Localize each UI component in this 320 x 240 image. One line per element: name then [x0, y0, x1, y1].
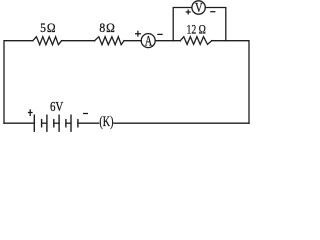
- wire: voltmeter loop top-right wire and right vertical: [205, 8, 226, 41]
- resistor R1 5Ω zigzag: [33, 37, 62, 45]
- svg-text:A: A: [145, 33, 152, 49]
- wire: between 5Ω and 8Ω: [62, 40, 95, 42]
- svg-text:8Ω: 8Ω: [99, 20, 115, 35]
- voltmeter U2 circle: [192, 1, 205, 14]
- wire: 8Ω to ammeter: [124, 40, 141, 42]
- wire: bottom right segment to key: [114, 122, 249, 124]
- svg-text:12 Ω: 12 Ω: [186, 23, 205, 37]
- ammeter U1 circle: [141, 34, 155, 48]
- wire: inter-cell connector 2: [54, 122, 59, 124]
- resistor R2 8Ω zigzag: [95, 37, 124, 45]
- svg-text:V: V: [195, 0, 203, 15]
- svg-text:6V: 6V: [50, 99, 64, 114]
- wire: inter-cell connector 3: [66, 122, 71, 124]
- wire: left vertical and top-left segment: [4, 41, 33, 124]
- voltmeter plus sign: [186, 10, 191, 15]
- ammeter minus sign: [157, 33, 162, 35]
- battery short plate 2: [53, 120, 55, 127]
- voltmeter minus sign: [210, 11, 215, 13]
- wire: voltmeter loop left vertical and top-left wire: [173, 8, 192, 41]
- ammeter plus sign: [135, 31, 141, 37]
- battery long plate 2: [46, 115, 48, 131]
- battery short plate 1: [41, 120, 43, 127]
- svg-text:5Ω: 5Ω: [40, 20, 56, 35]
- battery short plate 4: [77, 120, 79, 127]
- battery plus sign: [28, 109, 33, 116]
- resistor R3 12Ω zigzag: [180, 37, 211, 45]
- battery minus sign: [83, 113, 88, 115]
- wire: key to battery: [78, 122, 99, 124]
- wire: ammeter to 12Ω: [155, 40, 180, 42]
- svg-text:(K): (K): [99, 113, 113, 129]
- battery short plate 3: [65, 120, 67, 127]
- battery long plate 1: [33, 115, 35, 131]
- battery long plate 3: [58, 115, 60, 131]
- wire: inter-cell connector 1: [42, 122, 47, 124]
- wire: bottom left feed to battery: [4, 122, 34, 124]
- wire: 12Ω to top-right corner and right vertical: [212, 41, 249, 124]
- battery long plate 4: [70, 115, 72, 131]
